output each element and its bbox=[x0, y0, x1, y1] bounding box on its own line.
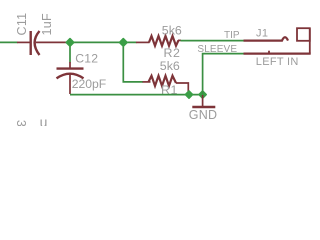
capacitor C12 bbox=[57, 62, 84, 94]
plug barrel side bbox=[309, 28, 311, 53]
node junction GND/sleeve drop bbox=[199, 91, 206, 98]
sleeve contact tick bbox=[268, 51, 270, 54]
svg-text:u: u bbox=[40, 114, 48, 126]
svg-text:C11: C11 bbox=[15, 13, 29, 36]
wire: ground net at bottom bbox=[70, 94, 203, 96]
svg-text:R2: R2 bbox=[164, 46, 181, 60]
wire: stub down to R1 bbox=[123, 42, 143, 82]
connector J1 audio jack bbox=[244, 28, 311, 53]
svg-text:TIP: TIP bbox=[224, 30, 240, 41]
pin TIP bbox=[244, 37, 289, 40]
wire: stub down to C12 bbox=[69, 42, 71, 62]
wire: net from C11 to R2 bbox=[66, 41, 137, 43]
svg-text:3: 3 bbox=[14, 120, 28, 126]
node junction at C11/C12 bbox=[66, 39, 74, 47]
svg-text:GND: GND bbox=[189, 108, 217, 122]
node junction at R1 branch bbox=[120, 39, 128, 47]
capacitor C11 bbox=[17, 31, 67, 55]
svg-text:220pF: 220pF bbox=[72, 77, 107, 91]
svg-text:1uF: 1uF bbox=[40, 13, 54, 36]
svg-text:SLEEVE: SLEEVE bbox=[197, 44, 237, 55]
wire: net R2 to jack tip bbox=[181, 40, 245, 42]
svg-text:J1: J1 bbox=[256, 27, 268, 39]
resistor R1 bbox=[143, 76, 189, 95]
svg-text:LEFT IN: LEFT IN bbox=[256, 56, 299, 68]
plug tip square bbox=[297, 28, 310, 41]
svg-text:C12: C12 bbox=[75, 52, 98, 66]
svg-text:5k6: 5k6 bbox=[160, 59, 180, 73]
node junction R1/ground net bbox=[185, 91, 192, 98]
ground symbol GND bbox=[192, 95, 215, 107]
resistor R2 bbox=[136, 36, 181, 46]
wire: sleeve drop bbox=[203, 54, 244, 95]
pin SLEEVE bbox=[244, 52, 311, 54]
wire: left input net at y=42.4 bbox=[0, 41, 18, 43]
svg-text:5k6: 5k6 bbox=[162, 24, 182, 38]
